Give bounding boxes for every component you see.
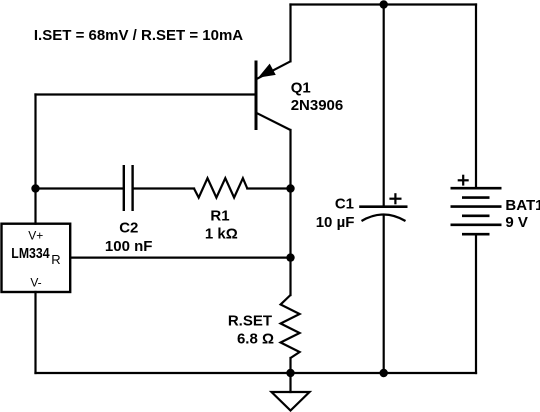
- wire C2 right to R1: [133, 187, 194, 189]
- capacitor C2 plates: [124, 165, 133, 211]
- svg-text:BAT1: BAT1: [505, 197, 540, 214]
- wire emitter vertical: [289, 5, 291, 62]
- capacitor C1 polarized plates: [359, 207, 407, 221]
- svg-text:9 V: 9 V: [505, 214, 528, 231]
- wire bottom rail: [36, 372, 477, 374]
- wire LM334 V- down: [34, 292, 36, 373]
- resistor R1 zigzag: [194, 178, 247, 197]
- svg-text:R1: R1: [210, 207, 229, 224]
- transistor Q1 symbol (PNP 2N3906): [256, 61, 291, 131]
- svg-text:100 nF: 100 nF: [105, 238, 153, 255]
- battery BAT1 plates: [451, 188, 502, 234]
- svg-text:2N3906: 2N3906: [291, 97, 344, 114]
- wire R.SET bottom to ground rail: [289, 358, 291, 373]
- node junction R pin / collector: [286, 253, 294, 261]
- wire C1 bottom vertical: [383, 217, 385, 374]
- svg-text:LM334: LM334: [11, 245, 50, 261]
- C1 plus sign: [389, 193, 401, 204]
- node junction left rail / C2: [31, 184, 39, 192]
- node junction top rail / C1: [380, 0, 388, 8]
- IC LM334 box: [2, 224, 71, 292]
- wire collector vertical (to R1 node, R node, R.SET): [289, 130, 291, 295]
- svg-text:V+: V+: [28, 228, 43, 242]
- svg-text:C2: C2: [119, 220, 138, 237]
- wire base from LM334 V+ rail to Q1 base: [36, 93, 257, 95]
- svg-text:1 kΩ: 1 kΩ: [205, 226, 238, 243]
- svg-text:I.SET = 68mV / R.SET = 10mA: I.SET = 68mV / R.SET = 10mA: [34, 27, 243, 44]
- svg-text:C1: C1: [335, 196, 354, 213]
- wire C1 top vertical: [383, 5, 385, 207]
- svg-text:R.SET: R.SET: [228, 313, 272, 330]
- svg-text:10 µF: 10 µF: [316, 214, 355, 231]
- svg-text:Q1: Q1: [291, 79, 311, 96]
- svg-text:6.8 Ω: 6.8 Ω: [237, 330, 274, 347]
- wire R1 right to collector node: [247, 187, 290, 189]
- wire BAT1 bottom vertical: [475, 234, 477, 373]
- wire ground stem: [289, 373, 291, 392]
- resistor R.SET zigzag: [281, 295, 300, 358]
- wire BAT1 top vertical: [475, 5, 477, 189]
- svg-text:V-: V-: [30, 275, 41, 289]
- node junction ground rail / C1: [380, 369, 388, 377]
- svg-text:R: R: [51, 252, 60, 267]
- BAT1 plus sign: [458, 175, 469, 186]
- wire left rail x=35.5 from base wire down to LM334 V+: [34, 95, 36, 224]
- wire C2 left at y=188.5: [36, 187, 123, 189]
- ground symbol: [272, 392, 310, 411]
- wire LM334 R pin to collector line: [70, 257, 290, 259]
- node junction R1 / collector: [286, 184, 294, 192]
- wire top rail from emitter to BAT1: [291, 3, 477, 5]
- node junction ground rail / R.SET: [286, 369, 294, 377]
